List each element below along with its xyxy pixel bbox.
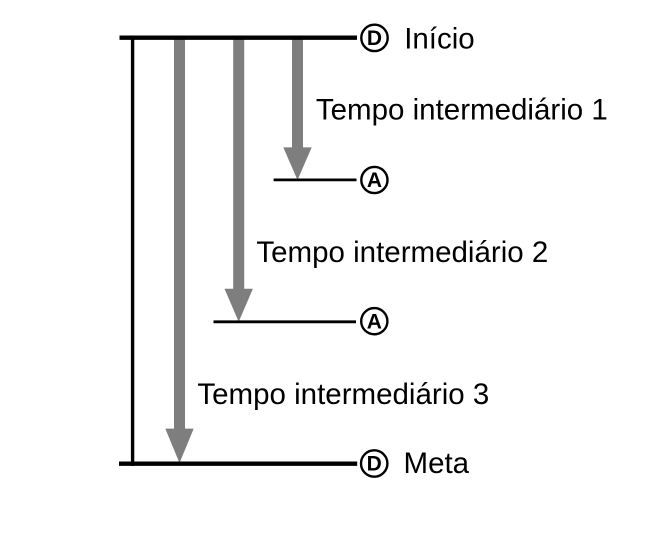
arrow (total) head (165, 429, 193, 463)
split line 1 (274, 178, 357, 181)
svg-text:A: A (367, 169, 382, 192)
svg-text:Meta: Meta (404, 447, 470, 480)
svg-text:A: A (367, 310, 382, 333)
finish line (bottom) (119, 462, 357, 466)
start line (top) (120, 36, 358, 40)
circle D (start) (361, 25, 387, 51)
arrow (total) shaft (174, 36, 185, 429)
arrow (split 2) shaft (233, 36, 244, 290)
svg-text:Tempo intermediário 2: Tempo intermediário 2 (256, 236, 548, 269)
svg-text:Tempo intermediário 3: Tempo intermediário 3 (197, 378, 489, 411)
split line 2 (214, 320, 357, 323)
circle A (split 2) (361, 308, 387, 334)
arrow (split 2) head (225, 289, 253, 322)
left vertical line (131, 36, 134, 466)
circle D (finish) (361, 450, 387, 476)
svg-text:D: D (367, 453, 382, 476)
svg-text:Início: Início (404, 23, 475, 56)
arrow (split 1) head (283, 147, 311, 180)
svg-text:Tempo intermediário 1: Tempo intermediário 1 (316, 94, 608, 127)
svg-text:D: D (367, 27, 382, 50)
arrow (split 1) shaft (292, 36, 303, 148)
circle A (split 1) (361, 167, 387, 193)
